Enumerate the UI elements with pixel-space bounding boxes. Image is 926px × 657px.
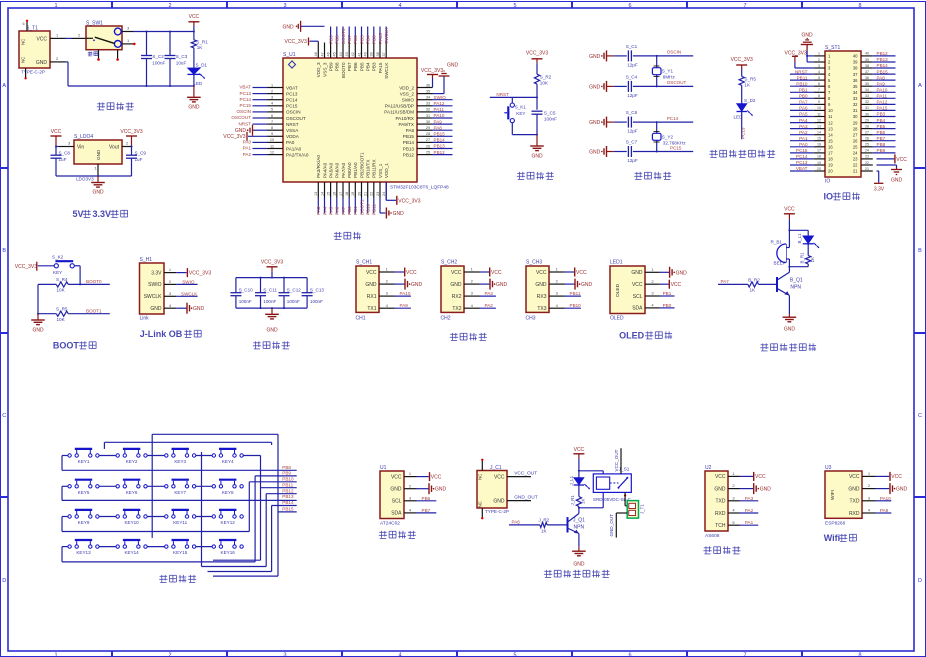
svg-text:PA3: PA3 <box>799 124 808 129</box>
svg-text:GND: GND <box>96 149 101 160</box>
svg-text:J_T1: J_T1 <box>640 504 645 514</box>
svg-text:AS608: AS608 <box>705 533 720 539</box>
svg-text:3: 3 <box>818 64 820 68</box>
svg-text:NRST: NRST <box>238 121 251 126</box>
svg-text:47: 47 <box>320 52 324 56</box>
svg-text:C: C <box>918 413 922 419</box>
svg-text:GND: GND <box>589 84 601 90</box>
svg-text:15: 15 <box>817 137 821 141</box>
svg-text:S_C5: S_C5 <box>544 111 556 116</box>
svg-text:10: 10 <box>270 138 274 142</box>
svg-text:PA10: PA10 <box>877 88 888 93</box>
svg-text:PB12: PB12 <box>282 488 294 493</box>
svg-text:VCC_3V3: VCC_3V3 <box>261 260 283 266</box>
svg-text:36: 36 <box>426 83 430 87</box>
svg-text:PB0: PB0 <box>347 206 352 215</box>
svg-text:S_C8: S_C8 <box>59 151 71 156</box>
svg-text:PB12: PB12 <box>877 51 889 56</box>
svg-text:SWIO: SWIO <box>434 95 447 100</box>
svg-text:PA5: PA5 <box>328 206 333 215</box>
svg-text:4: 4 <box>271 102 273 106</box>
svg-text:PA6: PA6 <box>512 520 521 525</box>
svg-text:39: 39 <box>370 52 374 56</box>
svg-text:12pF: 12pF <box>627 62 638 67</box>
svg-text:PB8: PB8 <box>282 465 291 470</box>
svg-text:PB15: PB15 <box>282 507 294 512</box>
svg-text:PB15: PB15 <box>403 134 415 139</box>
svg-text:VDDA: VDDA <box>286 134 300 139</box>
svg-text:BOOT0: BOOT0 <box>341 62 346 78</box>
svg-text:S_Y1: S_Y1 <box>662 69 674 74</box>
svg-text:S_C13: S_C13 <box>310 287 324 292</box>
svg-text:13: 13 <box>828 126 833 131</box>
svg-text:PA10: PA10 <box>434 113 445 118</box>
svg-text:PA2/TX/A0: PA2/TX/A0 <box>286 152 309 157</box>
svg-text:40: 40 <box>364 52 368 56</box>
svg-text:10: 10 <box>828 108 833 113</box>
svg-text:GND: GND <box>235 128 247 134</box>
svg-text:25: 25 <box>426 150 430 154</box>
svg-text:21: 21 <box>853 169 858 174</box>
svg-text:GND: GND <box>573 562 585 568</box>
svg-text:13: 13 <box>817 124 821 128</box>
svg-text:D: D <box>2 578 6 584</box>
svg-text:23: 23 <box>865 155 869 159</box>
svg-text:24: 24 <box>865 149 869 153</box>
svg-text:J_S1: J_S1 <box>619 467 630 473</box>
svg-text:VDD_3: VDD_3 <box>316 62 321 77</box>
svg-text:PA1: PA1 <box>243 146 252 151</box>
svg-text:S_H1: S_H1 <box>140 257 153 263</box>
svg-text:NC: NC <box>21 57 26 63</box>
svg-text:33: 33 <box>865 94 869 98</box>
svg-text:35: 35 <box>865 82 869 86</box>
svg-text:B: B <box>2 248 6 254</box>
svg-text:PB10: PB10 <box>366 203 371 215</box>
svg-text:2: 2 <box>168 3 171 9</box>
svg-text:37: 37 <box>853 72 858 77</box>
svg-text:OSCOUT: OSCOUT <box>231 115 251 120</box>
svg-text:26: 26 <box>853 138 858 143</box>
svg-text:2: 2 <box>271 89 273 93</box>
svg-text:23: 23 <box>376 192 380 196</box>
svg-text:RX1: RX1 <box>367 294 377 300</box>
svg-text:PA12: PA12 <box>877 100 888 105</box>
svg-text:20: 20 <box>828 169 833 174</box>
svg-text:GND: GND <box>801 33 813 39</box>
svg-text:GND: GND <box>188 105 200 111</box>
svg-text:LED1: LED1 <box>610 260 623 266</box>
svg-text:29: 29 <box>865 118 869 122</box>
svg-text:PA8: PA8 <box>877 75 886 80</box>
svg-text:1K: 1K <box>810 257 815 262</box>
svg-text:KEY11: KEY11 <box>173 520 187 525</box>
svg-text:BOOT1: BOOT1 <box>359 199 364 215</box>
svg-text:PA5/A0: PA5/A0 <box>328 162 333 178</box>
svg-text:KEY9: KEY9 <box>78 520 90 525</box>
svg-text:TX1: TX1 <box>367 306 376 312</box>
svg-text:Wifi: Wifi <box>824 533 840 543</box>
svg-text:100nF: 100nF <box>287 299 300 304</box>
svg-text:PA3/RX/A0: PA3/RX/A0 <box>316 155 321 178</box>
svg-text:Vout: Vout <box>109 145 120 151</box>
svg-text:CH1: CH1 <box>356 316 366 322</box>
svg-text:10K: 10K <box>57 317 66 322</box>
svg-text:PB12: PB12 <box>403 152 415 157</box>
svg-text:OLED: OLED <box>619 331 645 341</box>
svg-text:30: 30 <box>426 120 430 124</box>
svg-text:PB3: PB3 <box>372 35 377 44</box>
svg-text:VBAT: VBAT <box>286 85 298 90</box>
svg-text:SCL: SCL <box>633 294 643 300</box>
svg-text:27: 27 <box>853 132 858 137</box>
svg-text:PA5: PA5 <box>799 112 808 117</box>
svg-text:18: 18 <box>828 157 833 162</box>
svg-text:45: 45 <box>333 52 337 56</box>
svg-text:44: 44 <box>339 52 343 56</box>
svg-text:S_C4: S_C4 <box>626 74 638 79</box>
svg-text:GND_OUT: GND_OUT <box>609 514 614 537</box>
svg-text:19: 19 <box>817 161 821 165</box>
svg-text:PB13: PB13 <box>403 146 415 151</box>
svg-text:1: 1 <box>271 83 273 87</box>
svg-text:22: 22 <box>865 161 869 165</box>
svg-text:28: 28 <box>426 132 430 136</box>
svg-text:TYPE-C-2P: TYPE-C-2P <box>485 509 509 514</box>
svg-text:KEY4: KEY4 <box>222 459 234 464</box>
svg-text:PA6: PA6 <box>335 206 340 215</box>
svg-text:PB15: PB15 <box>877 69 889 74</box>
svg-text:BEEP: BEEP <box>774 261 786 266</box>
svg-text:3.3V: 3.3V <box>151 270 162 276</box>
svg-text:S_CH2: S_CH2 <box>441 260 457 266</box>
svg-text:PB14: PB14 <box>877 63 889 68</box>
svg-text:PA7: PA7 <box>341 206 346 215</box>
svg-text:27: 27 <box>865 131 869 135</box>
svg-text:S_R2: S_R2 <box>540 75 552 80</box>
svg-text:PC14: PC14 <box>286 98 298 103</box>
svg-text:KEY14: KEY14 <box>124 550 139 555</box>
svg-text:PA8: PA8 <box>406 128 415 133</box>
svg-text:PB11/RX: PB11/RX <box>372 159 377 178</box>
svg-text:J_C1: J_C1 <box>490 465 502 471</box>
svg-text:PA3: PA3 <box>316 206 321 215</box>
svg-text:28: 28 <box>865 124 869 128</box>
svg-text:5: 5 <box>271 108 273 112</box>
svg-text:VSSA: VSSA <box>286 128 299 133</box>
svg-text:PB1: PB1 <box>353 206 358 215</box>
svg-text:6: 6 <box>818 82 820 86</box>
svg-text:31: 31 <box>865 106 869 110</box>
svg-text:KEY8: KEY8 <box>222 490 234 495</box>
svg-text:S_SW1: S_SW1 <box>86 21 103 27</box>
svg-text:34: 34 <box>426 96 430 100</box>
svg-text:PB11: PB11 <box>797 75 808 80</box>
svg-text:VCC: VCC <box>451 270 462 276</box>
svg-text:GND: GND <box>193 306 205 312</box>
svg-text:VCC: VCC <box>36 36 47 42</box>
svg-text:PA0: PA0 <box>286 140 295 145</box>
svg-text:29: 29 <box>426 126 430 130</box>
svg-text:11: 11 <box>828 114 833 119</box>
svg-text:TXD: TXD <box>716 499 726 505</box>
svg-text:3.3V: 3.3V <box>874 187 885 193</box>
svg-text:17: 17 <box>817 149 821 153</box>
svg-text:PA6: PA6 <box>799 106 808 111</box>
svg-text:PB1: PB1 <box>663 291 672 296</box>
svg-text:OSCOUT: OSCOUT <box>667 80 687 85</box>
svg-text:S_R5: S_R5 <box>56 307 68 312</box>
svg-text:S_ST1: S_ST1 <box>825 45 841 51</box>
svg-text:3.3V: 3.3V <box>93 209 112 219</box>
svg-text:5: 5 <box>818 76 820 80</box>
svg-text:PA4/A0: PA4/A0 <box>322 162 327 178</box>
svg-text:PB0: PB0 <box>663 303 672 308</box>
svg-text:B_R2: B_R2 <box>748 277 760 282</box>
svg-text:25: 25 <box>865 143 869 147</box>
svg-text:14: 14 <box>828 132 833 137</box>
svg-text:1K: 1K <box>197 45 204 50</box>
svg-text:PA12/USB/DP: PA12/USB/DP <box>385 104 414 109</box>
svg-text:PA4: PA4 <box>799 118 808 123</box>
svg-text:16: 16 <box>817 143 821 147</box>
svg-text:S_R1: S_R1 <box>196 39 208 44</box>
svg-text:KEY10: KEY10 <box>124 520 139 525</box>
svg-text:1K: 1K <box>744 83 751 88</box>
svg-text:PB11: PB11 <box>570 291 581 296</box>
svg-text:B: B <box>918 248 922 254</box>
svg-text:PA15: PA15 <box>378 62 383 73</box>
svg-text:19: 19 <box>828 163 833 168</box>
svg-text:40: 40 <box>865 52 869 56</box>
svg-text:38: 38 <box>865 64 869 68</box>
svg-text:PB14: PB14 <box>282 500 294 505</box>
svg-text:3: 3 <box>271 96 273 100</box>
svg-text:KEY16: KEY16 <box>221 550 236 555</box>
svg-text:8: 8 <box>271 126 273 130</box>
svg-text:SWIO: SWIO <box>148 282 161 288</box>
svg-text:VCC_3V3: VCC_3V3 <box>120 129 142 135</box>
svg-text:STM32F103C8T6_LQFP48: STM32F103C8T6_LQFP48 <box>390 185 449 191</box>
svg-text:S_CH1: S_CH1 <box>356 260 372 266</box>
svg-text:PA2: PA2 <box>745 508 754 513</box>
svg-text:24: 24 <box>853 151 858 156</box>
svg-text:PC13: PC13 <box>741 127 746 139</box>
svg-text:42: 42 <box>351 52 355 56</box>
svg-text:5: 5 <box>513 652 516 657</box>
svg-text:S_C9: S_C9 <box>135 151 147 156</box>
svg-text:PA9: PA9 <box>880 508 889 513</box>
svg-text:GND: GND <box>150 306 162 312</box>
svg-text:20: 20 <box>357 192 361 196</box>
svg-text:KEY13: KEY13 <box>76 550 91 555</box>
svg-text:KEY5: KEY5 <box>78 490 90 495</box>
svg-text:VCC: VCC <box>671 282 682 288</box>
svg-text:PA15: PA15 <box>877 106 888 111</box>
svg-text:8MHz: 8MHz <box>663 75 676 80</box>
svg-text:8: 8 <box>858 652 861 657</box>
svg-text:VCC_OUT: VCC_OUT <box>614 449 619 471</box>
svg-text:VCC: VCC <box>574 447 585 453</box>
svg-text:GND: GND <box>589 54 601 60</box>
svg-text:8: 8 <box>818 94 820 98</box>
svg-text:43: 43 <box>345 52 349 56</box>
svg-text:VSS_3: VSS_3 <box>322 62 327 77</box>
svg-text:PB9: PB9 <box>328 35 333 44</box>
svg-text:GND: GND <box>589 150 601 156</box>
svg-text:S_K2: S_K2 <box>52 255 64 260</box>
svg-text:PA7/A0: PA7/A0 <box>341 162 346 178</box>
svg-text:11: 11 <box>270 144 274 148</box>
svg-text:S_C2: S_C2 <box>152 54 164 59</box>
svg-text:10K: 10K <box>57 288 66 293</box>
svg-text:33: 33 <box>853 96 858 101</box>
svg-text:B_Q1: B_Q1 <box>790 278 803 284</box>
svg-text:PB10: PB10 <box>282 476 294 481</box>
svg-text:PB5: PB5 <box>359 35 364 44</box>
svg-text:40: 40 <box>853 54 858 59</box>
svg-text:S_C12: S_C12 <box>287 287 301 292</box>
svg-text:BOOT: BOOT <box>53 341 80 351</box>
svg-text:OLED: OLED <box>610 316 624 322</box>
svg-text:VCC_3V3: VCC_3V3 <box>15 264 37 270</box>
svg-text:3: 3 <box>283 3 286 9</box>
svg-text:VCC: VCC <box>755 474 766 480</box>
svg-text:12pF: 12pF <box>627 158 638 163</box>
svg-text:VCC: VCC <box>896 157 907 163</box>
svg-text:B_L1: B_L1 <box>797 233 802 244</box>
svg-text:U3: U3 <box>825 465 832 471</box>
svg-text:S_K1: S_K1 <box>515 105 527 110</box>
svg-text:PA11: PA11 <box>434 107 445 112</box>
svg-text:GND: GND <box>496 282 508 288</box>
svg-text:J_L1: J_L1 <box>569 475 574 485</box>
svg-text:PA1: PA1 <box>745 520 754 525</box>
svg-text:PB2/BOOT1: PB2/BOOT1 <box>359 152 364 178</box>
svg-text:PB13: PB13 <box>877 57 889 62</box>
svg-text:34: 34 <box>865 88 869 92</box>
svg-text:NC: NC <box>478 501 483 507</box>
svg-text:16: 16 <box>333 192 337 196</box>
svg-text:C: C <box>2 413 6 419</box>
svg-text:GND: GND <box>848 486 860 492</box>
svg-text:GND: GND <box>447 63 459 69</box>
svg-text:17: 17 <box>339 192 343 196</box>
svg-text:22: 22 <box>370 192 374 196</box>
svg-text:PA12: PA12 <box>434 101 445 106</box>
svg-text:10uF: 10uF <box>176 61 187 66</box>
svg-text:RX3: RX3 <box>537 294 547 300</box>
svg-text:7: 7 <box>271 120 273 124</box>
svg-text:4: 4 <box>818 70 820 74</box>
svg-text:8: 8 <box>858 3 861 9</box>
svg-text:12: 12 <box>817 118 821 122</box>
svg-text:OSCIN: OSCIN <box>286 110 301 115</box>
svg-text:J_R2: J_R2 <box>539 518 550 523</box>
svg-text:S_U1: S_U1 <box>283 52 296 58</box>
svg-text:18: 18 <box>817 155 821 159</box>
svg-text:TYPE-C-2P: TYPE-C-2P <box>21 70 45 75</box>
svg-text:2: 2 <box>168 652 171 657</box>
svg-text:D: D <box>918 578 922 584</box>
svg-text:PB1/A0: PB1/A0 <box>353 162 358 178</box>
svg-text:7: 7 <box>743 3 746 9</box>
svg-text:25: 25 <box>853 145 858 150</box>
svg-text:100nF: 100nF <box>544 117 557 122</box>
svg-text:SWIO: SWIO <box>402 98 415 103</box>
svg-text:VCC: VCC <box>632 282 643 288</box>
svg-text:35: 35 <box>853 84 858 89</box>
svg-text:VCC: VCC <box>366 270 377 276</box>
svg-text:7: 7 <box>818 88 820 92</box>
svg-text:100nF: 100nF <box>310 299 323 304</box>
svg-text:PB6: PB6 <box>353 35 358 44</box>
svg-text:PB13: PB13 <box>282 494 294 499</box>
svg-text:39: 39 <box>865 58 869 62</box>
svg-text:PB4: PB4 <box>366 62 371 71</box>
svg-text:37: 37 <box>382 52 386 56</box>
svg-text:A: A <box>918 83 922 89</box>
svg-text:21: 21 <box>865 167 869 171</box>
svg-text:RXD: RXD <box>849 511 860 517</box>
svg-text:VCC_OUT: VCC_OUT <box>514 471 537 477</box>
svg-text:19: 19 <box>351 192 355 196</box>
svg-text:B_R1: B_R1 <box>799 252 804 264</box>
svg-text:VCC: VCC <box>891 474 902 480</box>
svg-text:SCL: SCL <box>392 499 402 505</box>
svg-text:1K: 1K <box>541 528 548 533</box>
svg-text:PC14: PC14 <box>796 154 808 159</box>
svg-text:21: 21 <box>364 192 368 196</box>
svg-text:OSCOUT: OSCOUT <box>286 116 306 121</box>
svg-text:GND: GND <box>891 178 903 184</box>
svg-text:PA3: PA3 <box>485 291 494 296</box>
svg-text:1: 1 <box>818 52 820 56</box>
svg-text:PB8: PB8 <box>877 142 886 147</box>
svg-text:31: 31 <box>853 108 858 113</box>
svg-text:PA15: PA15 <box>378 33 383 44</box>
svg-text:S_C1: S_C1 <box>626 44 638 49</box>
svg-text:30: 30 <box>853 114 858 119</box>
svg-text:PB5: PB5 <box>877 124 886 129</box>
svg-text:NRST: NRST <box>496 92 509 97</box>
svg-text:38: 38 <box>376 52 380 56</box>
svg-text:15: 15 <box>828 138 833 143</box>
svg-text:15: 15 <box>326 192 330 196</box>
svg-text:GND: GND <box>784 327 796 333</box>
svg-text:1: 1 <box>54 652 57 657</box>
svg-text:KEY3: KEY3 <box>174 459 186 464</box>
svg-text:PB8: PB8 <box>335 35 340 44</box>
svg-text:2: 2 <box>818 58 820 62</box>
svg-text:PA2: PA2 <box>485 303 494 308</box>
svg-text:NC: NC <box>478 474 483 480</box>
svg-text:Link: Link <box>140 316 150 322</box>
svg-text:PB14: PB14 <box>434 138 446 143</box>
svg-text:GND: GND <box>32 328 44 334</box>
svg-text:PC14: PC14 <box>240 97 252 102</box>
svg-text:SDA: SDA <box>391 511 402 517</box>
svg-text:LDO3V3: LDO3V3 <box>76 177 94 182</box>
svg-text:GND: GND <box>493 499 505 505</box>
svg-text:37: 37 <box>865 70 869 74</box>
svg-text:PA9: PA9 <box>434 119 443 124</box>
svg-text:S_C6: S_C6 <box>626 110 638 115</box>
svg-text:PB5: PB5 <box>359 62 364 71</box>
svg-text:PB6: PB6 <box>877 130 886 135</box>
svg-text:PA0: PA0 <box>799 142 808 147</box>
svg-text:SDA: SDA <box>632 306 643 312</box>
